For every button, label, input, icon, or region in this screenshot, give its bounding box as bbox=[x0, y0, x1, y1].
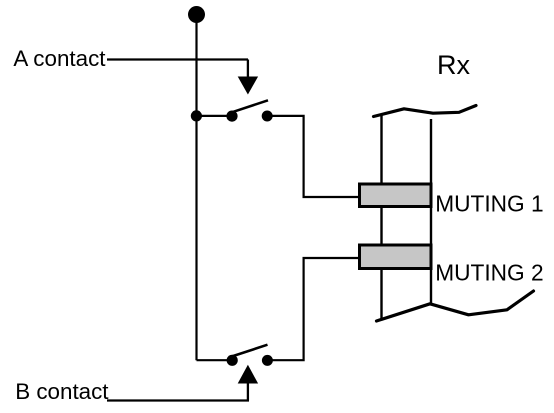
wire: Rx right vertical rail bbox=[430, 119, 432, 305]
switch S1 blade (open, rising to the right) bbox=[232, 100, 268, 112]
wire: A contact lead vertical drop bbox=[247, 60, 249, 79]
arrow: actuation arrow pointing down at A switch bbox=[238, 77, 258, 95]
wire: Rx left vertical rail bbox=[380, 114, 382, 320]
svg-text:Rx: Rx bbox=[437, 50, 470, 80]
node: top supply junction bbox=[188, 6, 205, 23]
wire: B arrow stem down to lead bbox=[247, 383, 249, 401]
svg-text:MUTING 1: MUTING 1 bbox=[435, 191, 543, 217]
muting input 1 terminal block bbox=[360, 184, 432, 207]
node: B switch right pole dot bbox=[262, 355, 273, 366]
node: junction dot on bus at A switch bbox=[191, 110, 202, 121]
node: A switch right pole dot bbox=[262, 111, 273, 122]
wire: torn-edge break line at bottom of Rx bbox=[377, 291, 534, 321]
wire: main vertical bus from top node down to B contact switch bbox=[195, 15, 197, 361]
switch S2 blade (open, rising to the right) bbox=[232, 345, 268, 357]
node: A switch left pole dot bbox=[226, 111, 237, 122]
svg-text:MUTING 2: MUTING 2 bbox=[435, 259, 543, 285]
wire: A switch output to corner bbox=[267, 116, 358, 197]
wire: B switch output to MUTING 2 bbox=[267, 258, 358, 360]
switch S1 (A contact), wire from bus to left pole bbox=[197, 115, 232, 117]
svg-text:B contact: B contact bbox=[15, 379, 109, 404]
svg-text:A contact: A contact bbox=[13, 46, 106, 71]
muting input 2 terminal block bbox=[360, 245, 432, 269]
wire: torn-edge break line at top of Rx bbox=[374, 106, 477, 117]
node: B switch left pole dot bbox=[227, 355, 238, 366]
wire: A contact lead horizontal bbox=[107, 58, 248, 60]
arrow: actuation arrow pointing up at B switch bbox=[238, 365, 258, 384]
switch S2 (B contact), wire from bus to left pole bbox=[197, 359, 232, 361]
wire: B contact lead horizontal bbox=[107, 399, 249, 401]
